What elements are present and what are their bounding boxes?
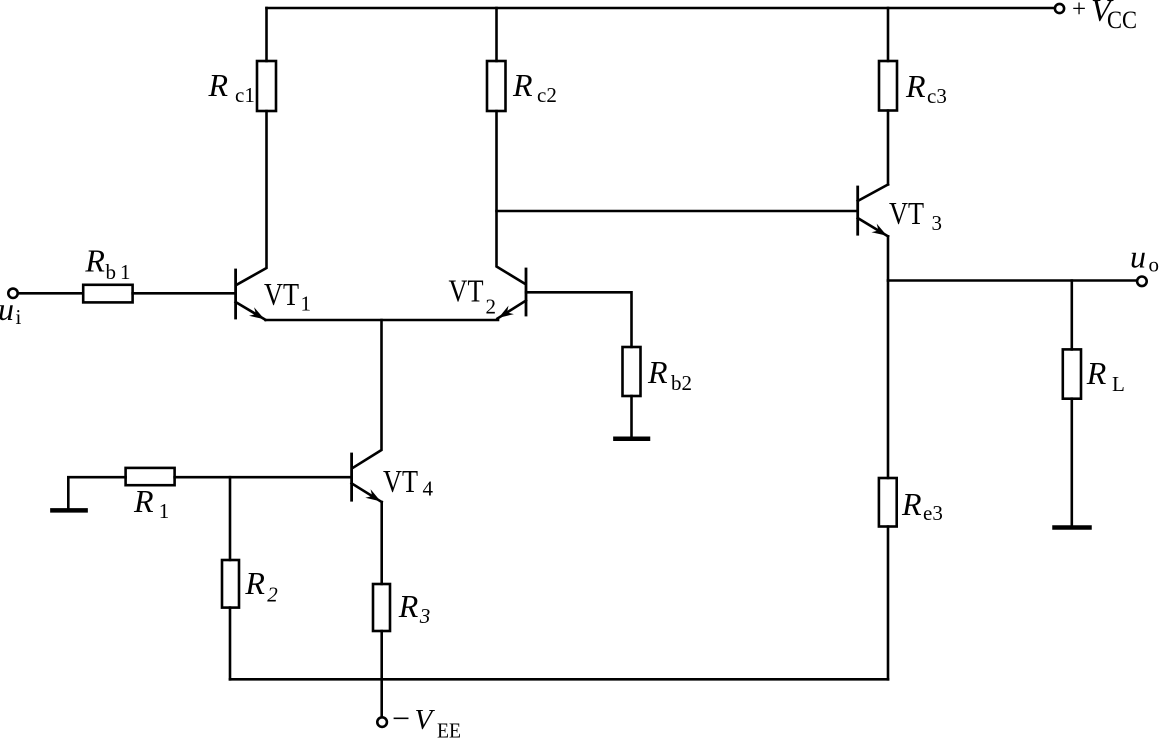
label VT1 [264, 276, 311, 316]
transistor Q VT4 [352, 454, 382, 502]
svg-text:VT: VT [383, 463, 418, 499]
resistor Rc1 [257, 61, 276, 111]
svg-text:L: L [1112, 372, 1125, 396]
svg-text:u: u [1130, 239, 1146, 275]
wire Rc3 top [887, 8, 890, 61]
resistor Re3 [879, 478, 897, 527]
transistor Q VT1 [236, 270, 266, 320]
wire R1 to VT4 base [175, 476, 352, 479]
wire R2 branch [229, 477, 232, 560]
wire Rc1 top [265, 8, 268, 61]
label VT4 [383, 463, 434, 501]
svg-text:VT: VT [264, 276, 299, 312]
wire RL branch [1071, 281, 1074, 350]
wire VT2 base to Rb2 [526, 292, 632, 347]
svg-text:u: u [0, 291, 14, 327]
svg-text:VT: VT [889, 195, 924, 231]
wire left ground stub [68, 477, 125, 508]
svg-text:R: R [133, 483, 154, 519]
label uo [1130, 239, 1159, 277]
svg-text:i: i [16, 305, 22, 329]
label VT2 [449, 273, 497, 319]
resistor Rc2 [487, 61, 506, 111]
svg-text:R: R [1086, 355, 1107, 391]
wire bottom rail [230, 678, 888, 681]
wire RL to ground [1071, 399, 1074, 526]
label R1 [133, 483, 169, 523]
wire Re3 to bottom rail [887, 527, 890, 680]
svg-text:R: R [244, 565, 265, 601]
wire R2 to bottom rail [229, 608, 232, 680]
resistor Rb2 [623, 347, 641, 396]
wire Rc1 bottom to VT1 collector [237, 111, 267, 285]
wire output node down to Re3 [887, 281, 890, 479]
svg-text:e3: e3 [923, 501, 943, 525]
svg-text:R: R [905, 68, 926, 104]
ground under RL [1055, 525, 1090, 530]
svg-text:R: R [208, 67, 229, 103]
ground under Rb2 [615, 437, 648, 442]
wire input to Rb1 [18, 292, 83, 295]
wire tail down to VT4 collector [353, 320, 382, 468]
label +VCC [1072, 0, 1137, 34]
transistor Q VT3 [858, 185, 888, 237]
label Re3 [901, 486, 943, 525]
svg-text:EE: EE [437, 719, 461, 741]
resistor Rc3 [879, 61, 897, 111]
label Rc3 [905, 68, 947, 108]
svg-text:+: + [1072, 0, 1086, 23]
wire VT4 emitter to R3 [380, 502, 383, 584]
label Rc1 [208, 67, 255, 107]
wire VT3 emitter down to output node [887, 236, 890, 280]
resistor R3 [373, 584, 390, 631]
wire top supply rail [267, 7, 1056, 10]
svg-text:R: R [512, 67, 533, 103]
node uo terminal [1137, 277, 1147, 287]
svg-text:o: o [1149, 253, 1159, 277]
label R2 [244, 565, 278, 607]
wire Rb1 to VT1 base [133, 292, 236, 295]
wire output node to uo terminal [888, 279, 1137, 282]
label ui [0, 291, 22, 329]
svg-text:CC: CC [1107, 7, 1137, 34]
resistor RL [1063, 349, 1081, 398]
svg-text:R: R [901, 486, 922, 522]
resistor R2 [222, 560, 239, 608]
resistor R1 [126, 468, 175, 485]
wire VT3 base line [497, 210, 858, 213]
svg-text:c3: c3 [927, 84, 947, 108]
node +VCC terminal [1055, 4, 1064, 13]
label R3 [398, 588, 431, 628]
svg-text:R: R [84, 242, 105, 278]
transistor Q VT2 [498, 269, 527, 319]
svg-text:3: 3 [419, 604, 431, 628]
svg-text:4: 4 [423, 477, 434, 501]
label VT3 [889, 195, 942, 235]
label RL [1086, 355, 1125, 396]
wire R3 down through rail to -VEE terminal [380, 631, 383, 717]
svg-text:R: R [647, 354, 668, 390]
wire VT3 collector to Rc3 [887, 111, 890, 185]
wire Rc2 bottom to VT2 collector [497, 111, 526, 284]
wire emitter rail VT1-VT2 [266, 319, 499, 322]
svg-text:3: 3 [932, 211, 943, 235]
svg-text:1: 1 [159, 499, 170, 523]
label -VEE [392, 700, 461, 741]
svg-text:VT: VT [449, 273, 484, 309]
wire Rb2 to ground [630, 396, 633, 437]
node -VEE terminal [377, 717, 387, 727]
ground left [52, 508, 85, 513]
svg-text:c1: c1 [235, 83, 255, 107]
svg-text:c2: c2 [537, 83, 557, 107]
label Rb1 [84, 242, 130, 284]
svg-text:−: − [392, 700, 410, 736]
label Rc2 [512, 67, 557, 107]
node ui input terminal [8, 289, 17, 298]
svg-text:b2: b2 [671, 371, 692, 395]
label Rb2 [647, 354, 692, 395]
svg-text:2: 2 [486, 295, 497, 319]
wire Rc2 top [495, 8, 498, 61]
svg-text:R: R [398, 588, 419, 624]
svg-text:1: 1 [301, 292, 312, 316]
resistor Rb1 [83, 285, 132, 303]
svg-text:2: 2 [267, 583, 278, 607]
